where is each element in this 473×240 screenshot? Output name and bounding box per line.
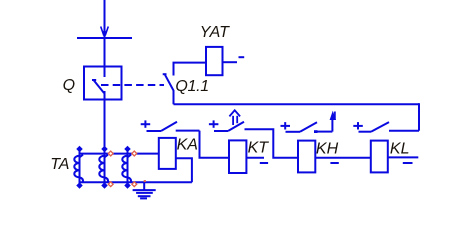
aux contact Q1.1 top lead [174, 63, 207, 76]
junction dot top rail b [132, 151, 137, 156]
wire KA contact to KT coil [200, 131, 230, 158]
contact KT with delay arrow [214, 110, 244, 131]
plus terminal 3 [281, 122, 291, 129]
signal arrow from KH contact [330, 111, 336, 132]
svg-text:KH: KH [316, 141, 339, 158]
svg-text:Q1.1: Q1.1 [175, 78, 209, 95]
TA secondary top rail [80, 153, 159, 155]
relay coil KA [159, 138, 176, 169]
relay coil KT [229, 140, 246, 173]
junction mark at ground stub [144, 180, 146, 182]
aux contact Q1.1 blade [163, 74, 174, 90]
contact KL (wire+blade) [359, 122, 420, 132]
wire right rail down [418, 103, 420, 131]
plus terminal 2 [209, 120, 219, 127]
arrowhead on incoming line [101, 27, 109, 37]
busbar [77, 37, 132, 39]
minus terminal after KL [403, 162, 413, 164]
relay coil KH [298, 141, 315, 173]
junction dot bottom rail a [108, 182, 113, 187]
breaker Q bottom lead wire [104, 91, 106, 183]
current transformer TA winding 3 [122, 146, 131, 189]
dashed mechanical linkage [101, 84, 164, 86]
plus terminal 1 [141, 120, 151, 127]
wire rail from Q1.1 to right [174, 103, 420, 105]
current transformer TA winding 2 [99, 146, 108, 189]
trip coil YAT [206, 47, 223, 75]
svg-text:TA: TA [50, 156, 69, 173]
junction dot bottom rail b [132, 182, 137, 187]
wire KT contact to KH coil [245, 129, 299, 157]
contact KH (wire+blade) [286, 122, 333, 133]
wire KA coil to bottom rail [176, 158, 192, 182]
relay coil KL [371, 141, 388, 173]
wire KT coil to minus [246, 157, 264, 159]
plus terminal 4 [353, 122, 363, 129]
svg-text:KA: KA [177, 137, 198, 154]
current transformer TA winding 1 [74, 146, 83, 189]
minus terminal after YAT [239, 56, 245, 58]
wire KL coil to minus [388, 156, 419, 158]
aux contact Q1.1 bottom lead [173, 90, 175, 104]
svg-text:Q: Q [63, 77, 75, 94]
junction dot top rail a [108, 151, 113, 156]
wire incoming line vertical [104, 0, 106, 77]
contact KA (wire+blade) [147, 122, 200, 131]
minus terminal after KT [260, 162, 268, 164]
circuit breaker Q box [84, 67, 122, 100]
svg-text:YAT: YAT [200, 24, 230, 41]
ground symbol [133, 182, 156, 198]
TA secondary bottom rail [80, 181, 192, 183]
wire KH coil to KL coil [315, 157, 371, 159]
wire YAT to minus [223, 61, 238, 63]
svg-text:KT: KT [248, 140, 270, 157]
breaker Q blade [92, 80, 104, 93]
svg-text:KL: KL [390, 141, 410, 158]
minus terminal after KH [330, 162, 338, 164]
